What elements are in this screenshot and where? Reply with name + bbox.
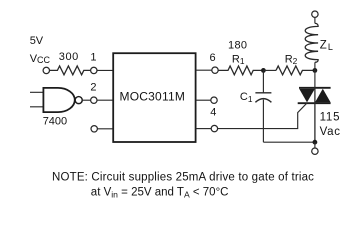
- svg-text:6: 6: [210, 52, 216, 64]
- resistor R2: [276, 66, 315, 75]
- wire bubble to pin2: [82, 99, 90, 101]
- wire C1 down to bottom rail: [262, 100, 264, 143]
- node B junction dot: [313, 68, 318, 73]
- pin 1 terminal: [91, 67, 97, 73]
- pin 3 terminal: [91, 126, 97, 132]
- wire box to pin 6: [196, 69, 212, 71]
- NAND gate U2 7400: [43, 88, 74, 112]
- wire node C to 115Vac terminal: [314, 142, 316, 148]
- capacitor C1 curved plate: [255, 99, 271, 103]
- node A junction dot: [261, 68, 266, 73]
- load ZL terminal: [312, 11, 318, 17]
- wire pin2 to box: [97, 99, 113, 101]
- svg-text:1: 1: [90, 51, 96, 63]
- svg-text:ZL: ZL: [320, 39, 333, 52]
- wire ZL to node B: [314, 62, 316, 70]
- NAND gate output bubble: [75, 97, 82, 104]
- wire terminal to ZL: [314, 17, 316, 23]
- svg-text:at Vin = 25V and TA < 70°C: at Vin = 25V and TA < 70°C: [91, 187, 229, 200]
- bottom rail C1 to node C: [263, 141, 315, 143]
- svg-text:Vac: Vac: [320, 126, 341, 138]
- wire box to bottom right pin: [196, 128, 212, 130]
- triac vertical through line: [314, 87, 316, 142]
- NAND gate input wires: [30, 92, 43, 107]
- optocoupler U1 MOC3011M box: [113, 53, 195, 142]
- node C junction dot: [313, 140, 318, 145]
- svg-text:7400: 7400: [43, 115, 67, 127]
- pin 4 terminal: [211, 97, 217, 103]
- svg-text:R1: R1: [232, 53, 245, 66]
- svg-text:2: 2: [90, 81, 96, 93]
- triac MT2 bar: [299, 87, 331, 89]
- wire box to pin 4: [196, 99, 211, 101]
- svg-text:180: 180: [228, 39, 247, 51]
- svg-text:MOC3011M: MOC3011M: [120, 90, 186, 104]
- svg-text:4: 4: [210, 107, 216, 119]
- pin 2 terminal: [91, 97, 97, 103]
- wire pin3 to box: [97, 128, 113, 130]
- svg-text:300: 300: [59, 51, 79, 63]
- svg-text:C1: C1: [240, 91, 253, 104]
- resistor R1: [218, 66, 263, 75]
- svg-text:115: 115: [320, 112, 341, 124]
- wire pin1 to box: [97, 69, 113, 71]
- resistor R 300: [50, 66, 91, 75]
- svg-text:5V: 5V: [30, 35, 44, 47]
- terminal 115 Vac: [312, 148, 318, 154]
- wire node B down to triac: [314, 70, 316, 88]
- svg-text:NOTE: Circuit supplies 25mA dr: NOTE: Circuit supplies 25mA drive to gat…: [52, 172, 314, 184]
- triac MT1 bar: [298, 102, 331, 104]
- svg-text:VCC: VCC: [30, 53, 51, 65]
- wire node A to R2: [263, 69, 276, 71]
- pin 6 terminal: [212, 67, 218, 73]
- svg-text:R2: R2: [285, 53, 298, 66]
- bottom right pin terminal: [211, 125, 217, 131]
- triac left triangle: [299, 89, 315, 103]
- capacitor C1 top plate: [255, 92, 271, 94]
- triac right triangle: [315, 89, 331, 103]
- terminal Vcc: [43, 67, 49, 73]
- triac gate wire: [218, 103, 307, 129]
- inductor ZL: [305, 23, 318, 62]
- wire node A down to C1: [262, 70, 264, 92]
